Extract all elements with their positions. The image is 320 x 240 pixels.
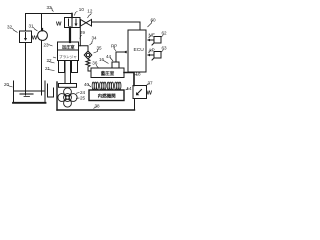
svg-text:W: W xyxy=(56,22,62,28)
svg-text:ECU: ECU xyxy=(134,47,145,53)
svg-text:31: 31 xyxy=(29,24,35,29)
svg-text:AP: AP xyxy=(149,48,155,53)
svg-text:18: 18 xyxy=(136,72,142,77)
svg-text:14: 14 xyxy=(127,86,133,91)
svg-text:W: W xyxy=(32,36,38,42)
svg-text:内燃機関: 内燃機関 xyxy=(98,92,116,99)
svg-text:10: 10 xyxy=(79,7,85,12)
svg-text:63: 63 xyxy=(162,46,168,51)
svg-text:NE: NE xyxy=(149,33,155,38)
svg-text:W: W xyxy=(147,91,153,97)
svg-text:16: 16 xyxy=(99,57,105,62)
svg-text:34: 34 xyxy=(92,36,98,41)
svg-text:プランジャ: プランジャ xyxy=(59,54,77,59)
svg-text:60: 60 xyxy=(151,18,157,23)
svg-text:加圧室: 加圧室 xyxy=(61,44,75,51)
svg-text:22: 22 xyxy=(47,58,53,63)
svg-text:蓄圧室: 蓄圧室 xyxy=(101,70,115,77)
svg-text:24: 24 xyxy=(80,90,86,95)
svg-text:37: 37 xyxy=(148,81,154,86)
svg-text:PP: PP xyxy=(111,44,117,49)
svg-text:33: 33 xyxy=(47,5,53,10)
svg-text:36: 36 xyxy=(92,60,98,65)
svg-text:23: 23 xyxy=(44,43,50,48)
svg-text:12: 12 xyxy=(87,9,93,14)
svg-text:21: 21 xyxy=(45,66,51,71)
svg-text:38: 38 xyxy=(95,104,101,109)
svg-text:20: 20 xyxy=(4,82,10,87)
svg-text:35: 35 xyxy=(97,46,103,51)
svg-text:29: 29 xyxy=(80,30,86,35)
svg-text:62: 62 xyxy=(162,31,168,36)
svg-text:32: 32 xyxy=(7,25,13,30)
svg-text:25: 25 xyxy=(80,96,86,101)
svg-text:40: 40 xyxy=(84,82,90,87)
svg-text:44: 44 xyxy=(106,54,112,59)
